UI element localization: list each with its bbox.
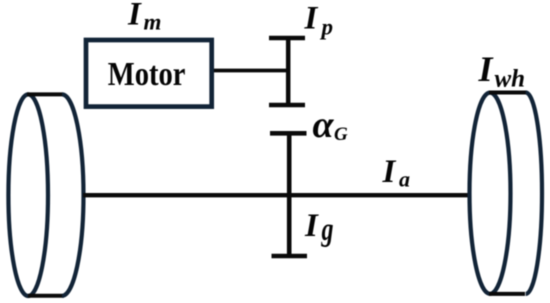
pinion top bar <box>269 36 305 41</box>
svg-text:I: I <box>382 154 397 190</box>
label Iwh (wheel inertia) <box>478 49 526 92</box>
left wheel bottom rim line <box>28 294 64 298</box>
svg-text:g: g <box>321 213 334 248</box>
svg-text:G: G <box>334 124 348 145</box>
pinion bottom bar <box>269 103 305 108</box>
svg-text:α: α <box>313 104 335 146</box>
right wheel <box>470 93 543 294</box>
svg-text:I: I <box>304 208 319 244</box>
left wheel top rim line <box>27 92 62 96</box>
svg-text:wh: wh <box>495 65 526 92</box>
svg-text:m: m <box>144 10 162 35</box>
label Im (motor inertia) <box>127 0 161 35</box>
right wheel top rim line <box>489 91 526 95</box>
axle shaft line Ia <box>83 193 486 197</box>
left wheel back rim arc <box>62 94 83 295</box>
left wheel <box>8 94 83 296</box>
svg-text:a: a <box>399 166 410 191</box>
motor shaft connector wire <box>214 69 290 73</box>
label Ia (axle inertia) <box>382 154 411 191</box>
svg-text:p: p <box>320 15 334 40</box>
gear I-beam symbol Ig <box>270 133 307 256</box>
gear shaft vertical <box>287 133 292 256</box>
svg-text:I: I <box>478 49 495 89</box>
label Ig (gear inertia) <box>304 208 333 248</box>
svg-text:I: I <box>304 0 319 36</box>
pinion I-beam symbol Ip <box>269 38 305 105</box>
label alphaG (gear ratio) <box>313 104 349 146</box>
gear top bar <box>270 131 307 136</box>
label Ip (pinion inertia) <box>304 0 334 39</box>
right wheel front face ellipse <box>470 93 511 294</box>
pinion shaft vertical <box>286 38 291 105</box>
left wheel front face ellipse <box>8 94 48 296</box>
gear bottom bar <box>272 254 308 259</box>
right wheel back rim arc <box>526 93 542 294</box>
svg-text:I: I <box>127 0 142 33</box>
svg-text:Motor: Motor <box>108 55 186 93</box>
right wheel bottom rim line <box>489 292 525 296</box>
motor box <box>86 40 212 107</box>
